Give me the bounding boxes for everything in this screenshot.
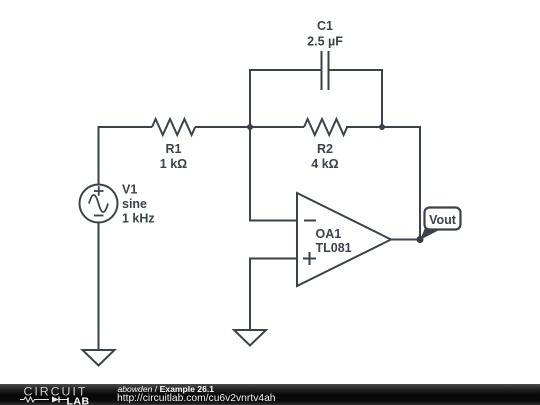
wire: R2 right to node B [346,126,382,128]
wire: node A down to op-amp inverting input [250,127,297,221]
footer bar [0,384,540,405]
svg-text:1 kΩ: 1 kΩ [160,157,187,171]
svg-text:2.5 µF: 2.5 µF [307,34,343,48]
op-amp U1 triangle [297,193,391,286]
svg-text:Vout: Vout [429,213,457,227]
node A junction dot [247,124,253,130]
svg-text:OA1: OA1 [316,227,342,241]
op-amp plus pin symbol [303,252,316,265]
ground symbol under V1 [83,350,115,366]
svg-text:R2: R2 [317,142,333,156]
output node junction dot [417,236,424,243]
wire: V1 top to R1 left [99,127,153,185]
svg-text:sine: sine [122,197,147,211]
svg-text:1 kHz: 1 kHz [122,211,155,225]
V1 sine symbol [89,195,108,212]
wire: C1 right down to node B [329,70,383,127]
footer credit line 1 [118,385,215,394]
V1 minus mark [94,215,104,217]
resistor R2 [304,119,347,135]
wire: node A up to C1 left [250,70,322,127]
svg-text:R1: R1 [166,142,182,156]
node B junction dot [379,124,385,130]
ground symbol at op-amp plus input [234,330,266,346]
CircuitLab logo [0,384,110,405]
wire: node B right and down to output node [382,127,420,240]
wire: op-amp output to output node [391,239,420,241]
capacitor C1 [322,51,329,90]
Vout flag box [425,208,461,230]
svg-text:V1: V1 [122,182,137,196]
wire: node A to R2 left [250,126,304,128]
svg-text:LAB: LAB [67,396,90,405]
svg-text:TL081: TL081 [316,241,352,255]
footer credit line 2 [117,394,276,404]
svg-text:C1: C1 [317,19,333,33]
V1 plus mark [94,186,104,195]
svg-text:4 kΩ: 4 kΩ [311,157,338,171]
voltage source V1 circle [80,185,118,223]
wire: op-amp non-inverting input to ground [250,259,297,331]
Vout flag tail [420,228,440,240]
resistor R1 [152,119,195,135]
op-amp minus pin symbol [304,220,316,222]
wire: R1 right to node A [195,126,250,128]
wire: V1 bottom to ground [98,223,100,351]
